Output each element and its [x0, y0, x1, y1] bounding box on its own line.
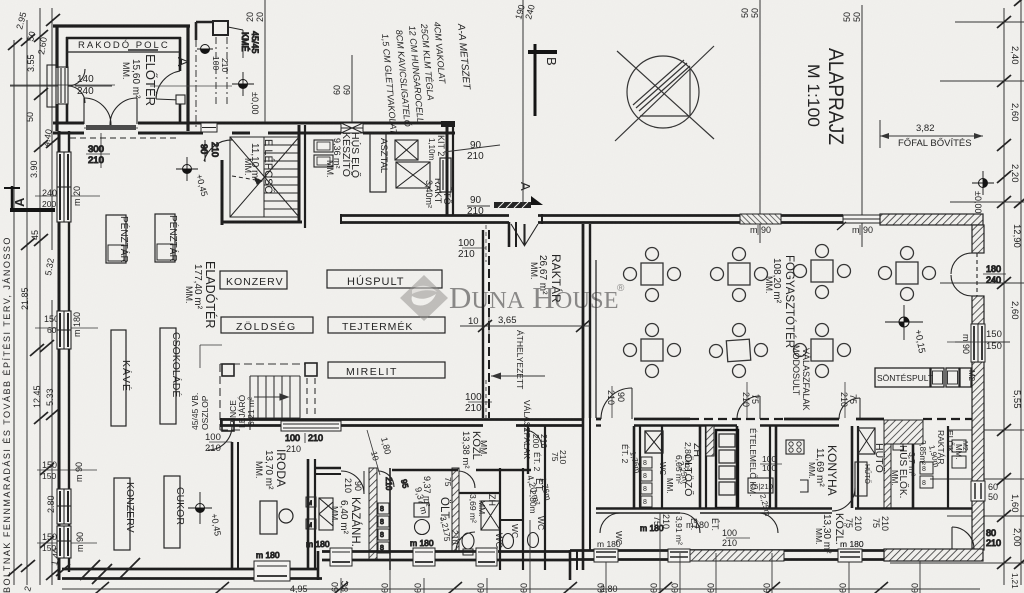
store right wall	[441, 121, 455, 215]
benchmark +0.15	[885, 305, 927, 354]
kazánh boiler	[319, 498, 333, 530]
chimney KM block	[196, 21, 260, 58]
hatched hűtő block	[884, 420, 923, 444]
section mark B	[528, 44, 559, 116]
pince lejáró dashed outline	[220, 364, 305, 430]
asztal box	[370, 133, 389, 192]
közl wall dashed (áthelyezett válaszfal)	[483, 230, 489, 418]
dashed column line down from pince	[307, 378, 315, 418]
door 90/210 lower with A arrow	[467, 182, 543, 217]
left dimension chain lines	[14, 8, 52, 585]
hűtő room	[855, 428, 887, 496]
benchmark ±0.00 left	[232, 72, 260, 114]
ét 1.76 and wc stalls	[620, 444, 667, 507]
dimension line x758 label 50/50	[740, 0, 760, 243]
vb oszlop columns	[222, 363, 317, 431]
left dimension tick marks	[8, 14, 70, 580]
wc stalls column	[378, 468, 410, 570]
window in dining bottom wall	[594, 539, 621, 562]
RAKTÁR room walls	[509, 222, 596, 418]
bottom wall windows	[254, 523, 664, 581]
north symbol crossed circle	[615, 46, 714, 141]
kávé shelf	[111, 330, 133, 426]
eladótér label	[184, 261, 218, 328]
raktár elők	[918, 430, 968, 488]
door dining 75/210 center	[737, 382, 760, 419]
pénztár 2	[155, 214, 180, 262]
dining tables row 1	[624, 245, 936, 302]
door dimension 140/240	[10, 74, 112, 97]
right dimension chain	[890, 0, 1024, 585]
door jambs right of kit2	[440, 158, 451, 192]
hatch band in dining bottom wall	[690, 550, 784, 561]
window 150/150 in right wall	[947, 324, 1002, 362]
door dining 75/210 right	[839, 382, 860, 419]
hatched new wall top right	[880, 214, 983, 225]
handwritten section notes A-A METSZET	[380, 21, 472, 136]
opening 100/210 at iroda top	[205, 426, 232, 454]
húspult label box	[327, 270, 442, 288]
hatched dividers right wing	[706, 426, 891, 508]
centerline through right door	[150, 85, 232, 87]
iroda desk	[260, 501, 293, 534]
window in dining bottom wall 3	[668, 549, 690, 562]
ét 4.20 room	[500, 434, 568, 570]
cukor shelf	[164, 476, 186, 548]
left dimension numbers	[14, 11, 56, 593]
window segment in top wall (m90 left)	[740, 214, 781, 235]
ölt 9.37 room	[413, 471, 475, 535]
title ALAPRAJZ M 1:100	[804, 48, 847, 145]
double door in right wall	[951, 253, 1006, 296]
pénztár 1	[106, 215, 131, 263]
door raktár-dining 90/210	[601, 386, 632, 419]
dining bottom hatched wall	[884, 549, 983, 561]
left boundary property text	[2, 236, 12, 593]
sill window left of stairs door	[201, 123, 217, 132]
kazánh door label	[343, 478, 363, 493]
hús előkészítő room fixtures	[314, 140, 333, 167]
kit2 / hűtő rakt labels	[424, 135, 452, 208]
survey point near chimney	[197, 45, 230, 73]
bottom double door of ELŐTÉR	[70, 98, 180, 168]
wall y470 extensions	[392, 426, 531, 474]
door to stairs area 90/210	[199, 140, 233, 162]
window in right wall lower	[971, 481, 998, 502]
pince lejáró labels	[190, 345, 256, 430]
opening 100/210 upper	[458, 225, 486, 262]
bottom long dimension line	[62, 588, 980, 590]
dimension 10 / 3.65	[460, 310, 590, 380]
section line 190/240 at x523	[513, 0, 537, 205]
dash-dot survey lines	[196, 37, 227, 128]
bottom-left corner ticks	[80, 558, 140, 584]
building bottom wall left wing	[62, 551, 570, 580]
zöldség label box	[221, 317, 313, 333]
stairs room walls	[222, 125, 305, 228]
dining south interior wall	[596, 419, 972, 426]
staircase	[230, 137, 299, 217]
konzerv label box top	[220, 271, 287, 289]
kazánh label	[330, 497, 362, 547]
diagonal note 1.80	[367, 430, 393, 475]
közl left corridor	[460, 426, 553, 570]
zh room	[645, 431, 703, 484]
duna house watermark	[400, 275, 625, 321]
right exterior wall hatched	[972, 225, 984, 550]
ELŐTÉR room label	[121, 54, 158, 106]
kazánh top wall and door	[315, 468, 364, 494]
konyha room	[786, 440, 839, 496]
ELŐTÉR block outer walls	[53, 25, 190, 131]
ételemelő	[748, 428, 782, 517]
stairs label	[243, 139, 276, 194]
bottom room band dividers right wing	[634, 426, 948, 508]
söntéspult bar counter	[875, 368, 976, 387]
ELŐTÉR bottom wall / store top wall	[53, 123, 455, 133]
section mark A left	[4, 186, 55, 210]
iroda wall equipment boxes	[306, 497, 316, 529]
corridor door labels	[614, 514, 890, 549]
benchmark +0.45 lower	[188, 492, 223, 537]
right door of ELŐTÉR	[156, 71, 185, 104]
corridor top wall (közl)	[596, 509, 972, 514]
window sill below zöldség (opening marks)	[281, 421, 341, 443]
top dimension projection line x265 with label 20/20	[245, 0, 265, 122]
corridor / dining top wall	[341, 214, 843, 224]
csokoládé shelf	[160, 328, 183, 424]
iroda walls	[232, 442, 315, 570]
iroda label	[254, 444, 301, 490]
double door corridor to raktár	[511, 224, 538, 245]
step wall between wings	[570, 418, 590, 580]
kit 2 boxes with X	[395, 140, 430, 188]
window 1 in left wall	[57, 152, 71, 222]
window 3 in left wall	[57, 489, 71, 524]
window X element in store top wall	[341, 123, 363, 133]
benchmark ±0.00 right	[972, 171, 994, 213]
benchmark +0.45 upper	[176, 157, 210, 198]
kazánh hatched right wall	[369, 468, 377, 560]
raktár label	[529, 254, 564, 303]
dimension line x862 label 50/50	[842, 5, 862, 247]
window 4 in left wall	[57, 526, 71, 558]
dining bottom wall	[570, 551, 884, 560]
hús előkészítő label	[325, 132, 363, 178]
fogyasztótér labels	[764, 255, 811, 411]
window in dining bottom wall 2	[838, 539, 864, 562]
dimension line x352 label 60/60	[332, 55, 352, 122]
közl door arcs	[600, 488, 855, 533]
dimension 3.82 főfal bővítés	[880, 120, 983, 149]
left window dimension labels	[42, 186, 85, 566]
bottom dimension projection lines and 60/60 labels	[341, 513, 920, 593]
dining tables row 2	[624, 324, 851, 378]
right dimension ticks	[997, 0, 1024, 569]
left window dimension pointer lines	[10, 85, 115, 543]
lower 75/210 with door	[442, 530, 475, 551]
opening 100/210 lower with dashes	[465, 380, 492, 418]
left double door of ELŐTÉR	[47, 65, 85, 107]
window segment in top wall (m90 right)	[837, 215, 880, 235]
eladótér south wall	[221, 418, 583, 427]
konzerv shelf lower	[114, 478, 136, 550]
rakodó polc shelf	[66, 40, 180, 52]
áthelyezett válaszfalak label	[515, 330, 532, 459]
mirelit label box	[328, 362, 445, 378]
window 2 in left wall	[57, 311, 71, 349]
door bottom right 80/210	[952, 527, 1001, 549]
közl label	[814, 513, 845, 554]
ELŐTÉR inner wall lines	[66, 37, 181, 122]
öltöző room	[665, 430, 738, 508]
tejtermék label box	[328, 317, 445, 333]
left exterior wall of store with windows	[59, 131, 69, 580]
door 90/210 upper dimension	[444, 140, 500, 162]
right dimension numbers	[1009, 46, 1022, 589]
room 3.69 walls	[452, 468, 504, 555]
hús előkészítő kis	[890, 428, 917, 498]
